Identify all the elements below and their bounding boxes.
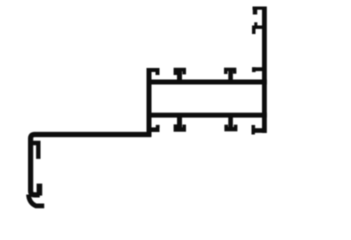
top lip down-tick bbox=[156, 70, 160, 75]
bottom stud 1 cap right tick bbox=[182, 125, 186, 128]
left piece outline: long arm, corner, vertical, bottom lip bbox=[31, 135, 151, 195]
bottom stud 2 cap right tick bbox=[234, 125, 238, 128]
bottom stud 2 stem bbox=[228, 117, 233, 127]
top lip down-tick bbox=[253, 7, 257, 15]
lower channel tick up-nub bbox=[252, 125, 256, 128]
box top wall bbox=[147, 80, 267, 85]
hook up-barb bbox=[254, 22, 257, 27]
bottom stud 2 cap bbox=[224, 127, 237, 131]
bottom stud 1 cap bbox=[174, 127, 186, 131]
top stud 2 cap left tick bbox=[224, 71, 228, 74]
right vertical bar bbox=[262, 7, 267, 134]
top stud 1 cap right tick bbox=[182, 71, 186, 74]
top stud 1 cap bbox=[174, 68, 186, 72]
right bar upper channel tick bbox=[252, 67, 263, 71]
top stud 2 cap bbox=[224, 68, 236, 71]
left piece stub bbox=[37, 184, 43, 196]
box left bar top lip bbox=[151, 68, 160, 72]
top stud 2 cap right tick bbox=[233, 71, 236, 74]
left piece inner hook bbox=[31, 143, 38, 159]
right bar lower channel tick bbox=[252, 128, 264, 133]
bottom stud 1 stem bbox=[177, 117, 182, 128]
top stud 1 cap left tick bbox=[174, 71, 178, 75]
top stud 1 stem bbox=[177, 70, 182, 81]
box left bar bbox=[147, 68, 152, 137]
left piece bottom tail bbox=[29, 195, 45, 206]
bottom stud 1 cap left tick bbox=[174, 124, 178, 127]
box bottom wall bbox=[147, 113, 267, 118]
top stud 2 stem bbox=[228, 70, 233, 81]
hook down-leg bbox=[252, 26, 256, 35]
bottom lip up-tick bbox=[156, 125, 160, 128]
bottom stud 2 cap left tick bbox=[224, 125, 228, 128]
glazing hook on right bar bbox=[253, 26, 263, 29]
top lip of right bar bbox=[253, 7, 264, 10]
lower channel tick end blob bbox=[252, 133, 255, 135]
box left bar bottom lip bbox=[151, 127, 160, 132]
upper channel tick nub bbox=[252, 67, 256, 72]
